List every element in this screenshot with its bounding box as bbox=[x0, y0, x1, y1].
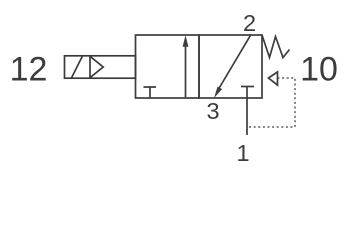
port 1 line bbox=[246, 87, 248, 136]
pilot triangle (port 10) bbox=[269, 72, 278, 85]
svg-text:10: 10 bbox=[300, 51, 338, 89]
flow diagonal (right cell, 2 to 3) bbox=[217, 35, 251, 92]
flow arrow shaft (left cell, 1 to 2) bbox=[185, 44, 187, 98]
return spring bbox=[262, 35, 290, 58]
svg-text:12: 12 bbox=[10, 51, 48, 89]
flow arrow head (left cell) bbox=[183, 35, 189, 47]
valve body left cell bbox=[136, 35, 200, 98]
solenoid pilot actuator box 12 bbox=[65, 56, 136, 78]
pilot amplifier divider bbox=[89, 56, 91, 78]
solenoid coil slash bbox=[71, 56, 82, 78]
svg-text:2: 2 bbox=[243, 10, 256, 36]
valve body right cell bbox=[199, 35, 262, 98]
svg-text:1: 1 bbox=[236, 140, 249, 165]
pilot amplifier triangle bbox=[90, 56, 103, 77]
blocked port T (left cell) bbox=[144, 87, 157, 98]
pilot control dashed line from port 1 to pilot 10 bbox=[247, 78, 295, 127]
svg-text:3: 3 bbox=[206, 98, 219, 124]
blocked port T (right cell, port 1) bbox=[241, 86, 254, 88]
flow diagonal arrow head (right cell) bbox=[214, 87, 222, 99]
